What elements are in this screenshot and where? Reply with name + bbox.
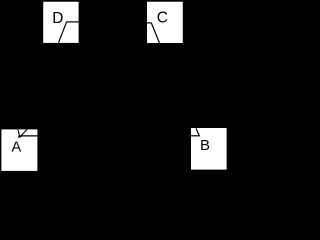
switch A blade right: [21, 129, 28, 136]
switch A wire: [19, 135, 37, 137]
switch B blade: [196, 128, 199, 136]
switch D blade: [59, 22, 67, 43]
switch C wire: [147, 22, 151, 24]
switch D wire: [67, 21, 79, 23]
box C: [147, 2, 183, 43]
switch B wire: [191, 135, 200, 137]
switch C blade: [151, 23, 159, 43]
svg-text:A: A: [12, 139, 22, 155]
box A: [1, 129, 37, 171]
box D: [43, 2, 78, 43]
svg-text:D: D: [52, 10, 63, 27]
switch A tip: [18, 135, 21, 138]
box B: [191, 128, 227, 170]
svg-text:B: B: [200, 137, 210, 154]
switch A blade left: [18, 130, 19, 136]
svg-text:C: C: [157, 10, 168, 27]
